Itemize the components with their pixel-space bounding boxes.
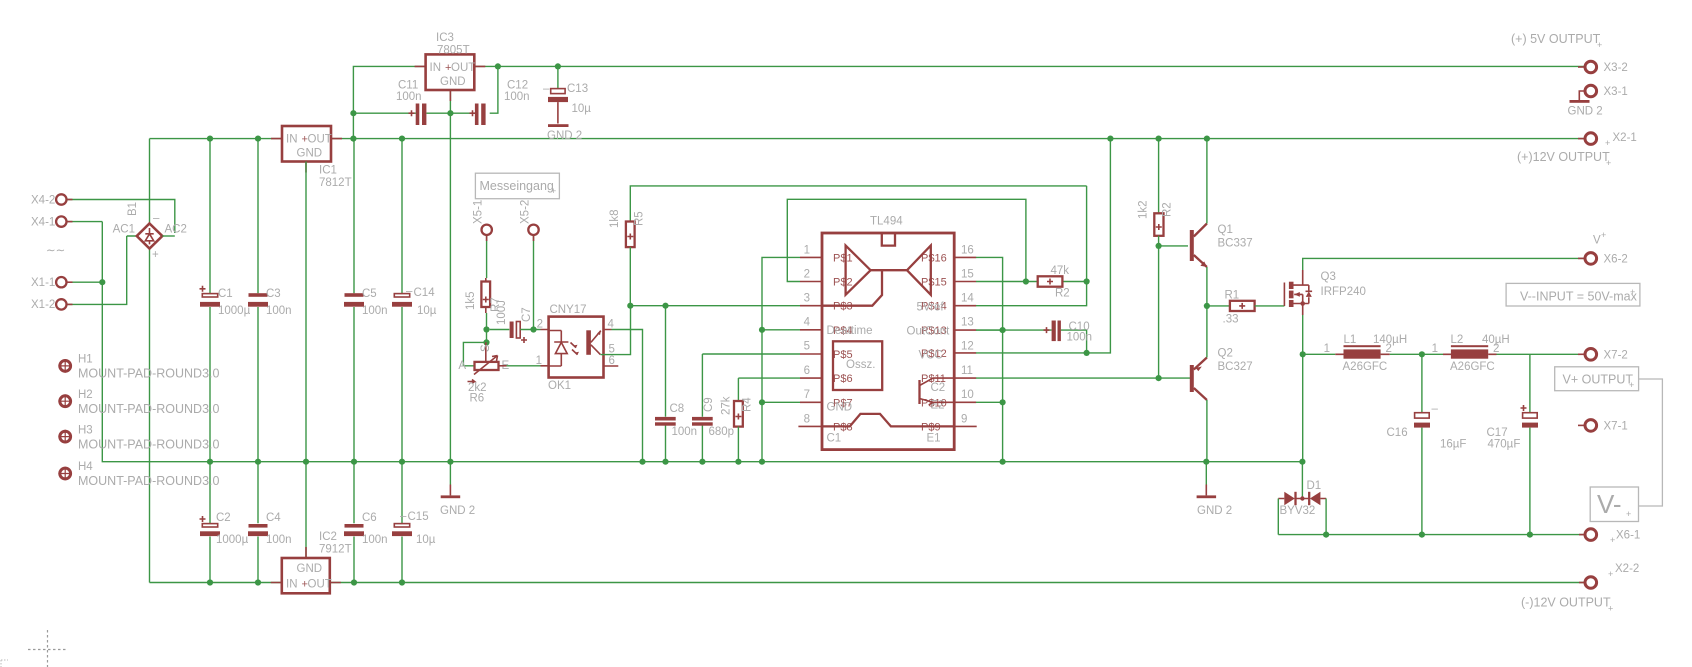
svg-text:IC3: IC3 xyxy=(436,32,454,44)
svg-text:IRFP240: IRFP240 xyxy=(1321,286,1366,298)
terminal X5-2 xyxy=(520,200,539,330)
svg-text:–: – xyxy=(543,83,550,95)
svg-text:GND 2: GND 2 xyxy=(547,130,582,142)
wire: +12V rail from bridge to X2-1 with junctions xyxy=(150,136,1586,142)
svg-text:+: + xyxy=(551,186,556,196)
gray connector V+OUTPUT box to V- box xyxy=(1639,379,1663,506)
svg-text:4: 4 xyxy=(804,317,811,329)
svg-text:1: 1 xyxy=(804,245,810,257)
svg-text:7805T: 7805T xyxy=(437,45,470,57)
diode D1 BYV32 dual xyxy=(1278,480,1326,535)
wire: bridge minus to rail / plus down to bottom rail xyxy=(149,139,151,583)
wire: ground bus y=462 with junctions xyxy=(99,222,1305,465)
svg-text:GND: GND xyxy=(827,402,853,414)
svg-text:C2: C2 xyxy=(931,382,946,394)
svg-text:1: 1 xyxy=(536,355,542,367)
svg-text:X4-1: X4-1 xyxy=(31,217,55,229)
wire: IC3 IN branch from rail xyxy=(353,66,425,138)
capacitor C17 470uF xyxy=(1487,354,1539,534)
svg-text:R4: R4 xyxy=(742,397,754,412)
svg-text:100n: 100n xyxy=(362,534,388,546)
svg-text:8: 8 xyxy=(804,414,810,426)
svg-text:X4-2: X4-2 xyxy=(31,195,55,207)
svg-text:+: + xyxy=(1610,535,1615,545)
mount pad H3 xyxy=(58,425,219,452)
svg-text:5: 5 xyxy=(804,341,810,353)
resistor R2 47k xyxy=(976,265,1090,300)
svg-text:40µH: 40µH xyxy=(1482,334,1510,346)
svg-text:V-: V- xyxy=(1597,489,1622,519)
svg-text:H4: H4 xyxy=(78,461,93,473)
svg-text:R2: R2 xyxy=(1055,288,1070,300)
wire: TL494 pin3 net xyxy=(627,303,800,309)
svg-text:15: 15 xyxy=(961,269,974,281)
svg-text:3: 3 xyxy=(804,293,810,305)
svg-text:V--INPUT = 50V-max: V--INPUT = 50V-max xyxy=(1520,290,1638,304)
svg-text:P$6: P$6 xyxy=(833,373,853,385)
svg-text:(-)12V OUTPUT: (-)12V OUTPUT xyxy=(1521,596,1611,610)
voltage regulator IC1 7812T xyxy=(271,126,352,189)
terminal X3-1 with ground xyxy=(1568,85,1628,117)
svg-text:Q1: Q1 xyxy=(1218,224,1233,236)
svg-text:16: 16 xyxy=(961,245,974,257)
svg-text:OUT: OUT xyxy=(308,134,332,146)
svg-text:C2: C2 xyxy=(216,512,231,524)
svg-text:C1: C1 xyxy=(218,288,233,300)
svg-text:A26GFC: A26GFC xyxy=(1343,361,1388,373)
svg-text:680p: 680p xyxy=(709,426,735,438)
origin crosshair xyxy=(1,630,67,667)
svg-text:X6-1: X6-1 xyxy=(1616,530,1640,542)
svg-text:IN: IN xyxy=(286,134,298,146)
svg-text:L1: L1 xyxy=(1344,334,1357,346)
svg-text:100n: 100n xyxy=(266,534,292,546)
svg-text:+: + xyxy=(1608,604,1613,614)
svg-text:MOUNT-PAD-ROUND3.0: MOUNT-PAD-ROUND3.0 xyxy=(78,474,219,488)
resistor R1 .33 xyxy=(1204,290,1285,326)
mount pad H2 xyxy=(58,389,219,416)
svg-text:11: 11 xyxy=(961,365,973,377)
svg-text:100n: 100n xyxy=(504,91,530,103)
svg-text:13: 13 xyxy=(961,317,974,329)
svg-text:C7: C7 xyxy=(521,307,533,322)
svg-text:1k8: 1k8 xyxy=(609,209,621,228)
svg-text:R5: R5 xyxy=(634,211,646,226)
terminal X7-1 xyxy=(1578,420,1628,433)
svg-text:47k: 47k xyxy=(1051,265,1070,277)
resistor R4 27k xyxy=(721,378,801,462)
svg-text:BYV32: BYV32 xyxy=(1280,505,1316,517)
svg-text:X7-1: X7-1 xyxy=(1604,421,1628,433)
svg-text:S: S xyxy=(480,344,492,352)
capacitor C10 100n xyxy=(976,321,1092,353)
wire: TL494 pin5 to C9 xyxy=(702,353,800,355)
svg-text:7912T: 7912T xyxy=(319,544,352,556)
svg-text:P$2: P$2 xyxy=(833,277,853,289)
terminal X4-2 xyxy=(31,194,175,233)
svg-text:10µ: 10µ xyxy=(572,103,592,115)
transistor Q1 BC337 xyxy=(1159,139,1253,306)
capacitor C12 100n xyxy=(470,80,530,126)
wire: C11/C12 line y=113.2 xyxy=(350,66,498,116)
svg-text:C1: C1 xyxy=(827,433,842,445)
mount pad H4 xyxy=(58,461,219,488)
label (+)12V OUTPUT xyxy=(1517,150,1611,168)
svg-text:IN: IN xyxy=(430,62,442,74)
svg-text:10µ: 10µ xyxy=(416,534,436,546)
TL494 internal output transistor pins 10/11 xyxy=(920,378,955,405)
voltage regulator IC3 7805T xyxy=(415,32,486,101)
svg-text:27k: 27k xyxy=(721,396,733,415)
svg-text:H2: H2 xyxy=(78,389,93,401)
svg-text:5Vref: 5Vref xyxy=(917,302,945,314)
capacitor C15 10u xyxy=(392,462,436,583)
svg-text:100n: 100n xyxy=(266,305,292,317)
svg-text:140µH: 140µH xyxy=(1373,334,1407,346)
annotation box V--INPUT = 50V-max xyxy=(1506,283,1640,306)
svg-text:L2: L2 xyxy=(1451,334,1464,346)
wire: IC1/IC2 GND vertical xyxy=(305,162,307,559)
svg-text:OUT: OUT xyxy=(451,62,475,74)
svg-text:100n: 100n xyxy=(672,426,698,438)
wire: pin2 to pin15 feedback loop xyxy=(787,199,1026,281)
svg-text:AC1: AC1 xyxy=(113,224,135,236)
transistor Q2 BC327 xyxy=(1190,306,1253,462)
svg-text:R1: R1 xyxy=(1225,290,1240,302)
ground symbol GND2 under C13 xyxy=(547,124,582,142)
svg-text:C8: C8 xyxy=(670,403,685,415)
terminal X6-1 xyxy=(1579,529,1640,545)
terminal X3-2 xyxy=(1578,61,1628,74)
svg-text:OUT: OUT xyxy=(308,579,332,591)
svg-text:H3: H3 xyxy=(78,425,93,437)
svg-text:14: 14 xyxy=(961,293,974,305)
svg-text:CNY17: CNY17 xyxy=(550,304,587,316)
svg-text:X2-2: X2-2 xyxy=(1615,563,1639,575)
svg-text:16µF: 16µF xyxy=(1440,439,1466,451)
svg-text:–: – xyxy=(406,286,413,298)
svg-text:AC2: AC2 xyxy=(165,224,187,236)
resistor R5 1k8 xyxy=(609,186,1087,306)
resistor R7 1k5 xyxy=(465,278,502,313)
wire: Q3 source down to inductor node, bus end, D1 xyxy=(1300,315,1306,497)
wire: pin16 and pin13 to ground vertical xyxy=(976,257,1006,461)
svg-text:IN: IN xyxy=(286,579,298,591)
svg-text:C5: C5 xyxy=(362,288,377,300)
svg-text:+: + xyxy=(152,249,159,261)
terminal X2-2 xyxy=(1579,563,1639,588)
capacitor C14 10u xyxy=(392,139,437,462)
wire: pin12 VCC to +12V rail xyxy=(976,139,1110,356)
wire: pin14 5Vref up to R2 node and top line xyxy=(976,186,1087,306)
svg-text:GND 2: GND 2 xyxy=(1568,106,1603,118)
svg-text:10: 10 xyxy=(961,389,974,401)
svg-text:100n: 100n xyxy=(396,91,422,103)
terminal X1-1 xyxy=(31,277,102,289)
svg-text:R2: R2 xyxy=(1162,202,1174,217)
svg-text:B1: B1 xyxy=(127,202,139,216)
svg-text:(+) 5V OUTPUT: (+) 5V OUTPUT xyxy=(1511,32,1601,46)
svg-text:D1: D1 xyxy=(1307,480,1322,492)
capacitor C4 100n xyxy=(248,462,292,583)
annotation box Messeingang xyxy=(475,173,559,199)
svg-text:5: 5 xyxy=(609,344,615,356)
svg-text:1k2: 1k2 xyxy=(1138,200,1150,219)
wire: -12V bottom rail to X2-2 with junctions xyxy=(150,579,1586,585)
svg-text:V: V xyxy=(1593,235,1601,247)
svg-text:C3: C3 xyxy=(266,288,281,300)
svg-text:4: 4 xyxy=(608,319,615,331)
svg-text:MOUNT-PAD-ROUND3.0: MOUNT-PAD-ROUND3.0 xyxy=(78,367,219,381)
TL494 internal comparator triangles xyxy=(822,246,931,306)
ground symbol GND2 near Q2 xyxy=(1197,462,1233,517)
svg-text:GND: GND xyxy=(297,148,323,160)
inductor L1 140uH xyxy=(1303,334,1451,373)
capacitor C1 1000u xyxy=(200,139,251,462)
svg-text:470µF: 470µF xyxy=(1488,439,1521,451)
svg-text:C13: C13 xyxy=(567,83,588,95)
capacitor C8 100n xyxy=(655,306,697,462)
TL494 internal labels xyxy=(827,302,951,445)
TL494 right pin stubs and numbers xyxy=(954,245,977,427)
svg-text:C17: C17 xyxy=(1487,427,1508,439)
trimmer R6 2k2 xyxy=(458,342,541,404)
MOSFET Q3 IRFP240 xyxy=(1284,270,1365,315)
svg-text:.33: .33 xyxy=(1223,314,1239,326)
wire: V- line to X6-1 xyxy=(1278,532,1585,538)
svg-text:100n: 100n xyxy=(1067,332,1093,344)
svg-text:C4: C4 xyxy=(266,512,281,524)
annotation box V- xyxy=(1590,487,1638,522)
wire: R7 bottom node with junctions xyxy=(463,313,509,366)
svg-text:TL494: TL494 xyxy=(870,216,903,228)
svg-text:–: – xyxy=(153,213,160,225)
svg-text:P$1: P$1 xyxy=(833,252,853,264)
svg-text:C14: C14 xyxy=(414,287,436,299)
svg-text:X1-1: X1-1 xyxy=(31,277,55,289)
terminal X6-2 xyxy=(1578,230,1628,266)
svg-text:GND 2: GND 2 xyxy=(440,505,475,517)
svg-text:C12: C12 xyxy=(507,80,528,92)
svg-text:V+ OUTPUT: V+ OUTPUT xyxy=(1563,373,1634,387)
svg-text:+: + xyxy=(1597,40,1602,50)
optocoupler OK1 CNY17 xyxy=(536,304,619,392)
capacitor C6 100n xyxy=(344,462,388,583)
terminal X7-2 xyxy=(1578,349,1628,362)
capacitor C3 100n xyxy=(248,139,292,462)
inductor L2 40uH xyxy=(1432,334,1585,373)
terminal X4-1 xyxy=(31,216,102,228)
svg-text:OK1: OK1 xyxy=(548,380,571,392)
wire: Q3 drain to X6-2 xyxy=(1303,258,1585,270)
resistor R8 1k2 pull-up xyxy=(1138,139,1174,379)
svg-text:1: 1 xyxy=(1432,343,1438,355)
capacitor C5 100n xyxy=(344,139,388,462)
svg-text:E1: E1 xyxy=(927,433,941,445)
svg-text:6: 6 xyxy=(804,365,810,377)
terminal X5-1 xyxy=(473,200,492,278)
TL494 internal pin names P$1-P$16 xyxy=(833,252,947,433)
svg-text:+: + xyxy=(1629,380,1634,390)
wire: CNY17 pin5 to R5/pin3 node xyxy=(601,306,631,355)
svg-text:R6: R6 xyxy=(470,393,485,405)
svg-text:2: 2 xyxy=(537,319,543,331)
TL494 left pin stubs and numbers xyxy=(798,245,822,427)
svg-text:P$16: P$16 xyxy=(921,252,947,264)
svg-text:GND: GND xyxy=(297,563,323,575)
capacitor C13 10u xyxy=(543,66,591,123)
svg-text:∼∼: ∼∼ xyxy=(46,245,65,257)
wire: CNY17 pin4 to ground bus xyxy=(612,330,643,462)
svg-text:C9: C9 xyxy=(703,397,715,412)
svg-text:+: + xyxy=(1606,158,1611,168)
svg-text:X5-1: X5-1 xyxy=(473,200,485,224)
IC TL494 body xyxy=(822,216,954,450)
svg-text:MOUNT-PAD-ROUND3.0: MOUNT-PAD-ROUND3.0 xyxy=(78,402,219,416)
svg-text:E2: E2 xyxy=(931,400,945,412)
wire: IC3 GND vertical down to ground bus xyxy=(449,90,451,462)
svg-text:C6: C6 xyxy=(362,512,377,524)
svg-text:1000µ: 1000µ xyxy=(216,534,249,546)
svg-text:A: A xyxy=(458,360,466,372)
mount pad H1 xyxy=(58,354,219,381)
svg-text:X5-2: X5-2 xyxy=(520,200,532,224)
svg-text:GND: GND xyxy=(440,76,466,88)
wire: TL494 pins 1,4,7 ground vertical xyxy=(759,257,800,461)
svg-text:+: + xyxy=(1608,569,1613,579)
capacitor C11 100n xyxy=(396,80,426,126)
svg-text:100J: 100J xyxy=(496,300,508,325)
voltage regulator IC2 7912T xyxy=(271,531,352,593)
svg-text:GND 2: GND 2 xyxy=(1197,505,1232,517)
capacitor C7 xyxy=(496,300,541,343)
wire: pin11 E2 to driver bases xyxy=(976,375,1192,381)
svg-text:+: + xyxy=(1601,230,1606,240)
svg-text:X3-1: X3-1 xyxy=(1604,86,1628,98)
svg-text:100n: 100n xyxy=(362,305,388,317)
svg-text:X2-1: X2-1 xyxy=(1613,132,1637,144)
svg-text:H1: H1 xyxy=(78,354,93,366)
annotation box V+OUTPUT xyxy=(1555,367,1639,391)
svg-text:+: + xyxy=(1605,138,1610,148)
label (+) 5V OUTPUT xyxy=(1511,32,1602,50)
svg-text:X7-2: X7-2 xyxy=(1604,350,1628,362)
svg-text:IC1: IC1 xyxy=(319,165,337,177)
svg-text:BC327: BC327 xyxy=(1218,361,1253,373)
svg-text:MOUNT-PAD-ROUND3.0: MOUNT-PAD-ROUND3.0 xyxy=(78,438,219,452)
svg-text:P$15: P$15 xyxy=(921,277,947,289)
svg-text:1000µ: 1000µ xyxy=(218,305,251,317)
svg-text:C11: C11 xyxy=(398,80,418,92)
svg-text:Q2: Q2 xyxy=(1218,348,1233,360)
svg-text:1: 1 xyxy=(1324,343,1330,355)
svg-text:IC2: IC2 xyxy=(319,531,337,543)
capacitor C9 680p xyxy=(692,354,734,462)
terminal X1-2 xyxy=(31,236,137,311)
label (-)12V OUTPUT xyxy=(1521,596,1613,614)
svg-text:10µ: 10µ xyxy=(417,305,437,317)
svg-text:X1-2: X1-2 xyxy=(31,299,55,311)
svg-text:Q3: Q3 xyxy=(1321,271,1336,283)
TL494 internal output transistor pins 8/9 xyxy=(822,414,954,427)
svg-text:Messeingang: Messeingang xyxy=(480,179,554,193)
svg-text:OutCont: OutCont xyxy=(907,326,951,338)
capacitor C16 16uF xyxy=(1387,354,1467,534)
svg-text:VCC: VCC xyxy=(919,350,943,362)
ground symbol GND2 on main bus xyxy=(440,462,475,517)
svg-text:A26GFC: A26GFC xyxy=(1450,361,1495,373)
bridge rectifier B1 xyxy=(113,202,187,261)
svg-text:X3-2: X3-2 xyxy=(1604,62,1628,74)
svg-text:+: + xyxy=(1630,287,1635,297)
TL494 internal oscillator box Ossz. xyxy=(833,341,882,390)
svg-text:BC337: BC337 xyxy=(1218,238,1253,250)
svg-text:1k5: 1k5 xyxy=(465,291,477,310)
svg-text:–: – xyxy=(1432,403,1439,415)
svg-text:C16: C16 xyxy=(1387,427,1408,439)
svg-text:+: + xyxy=(1626,509,1631,519)
svg-text:Deattime: Deattime xyxy=(827,325,873,337)
svg-text:12: 12 xyxy=(961,341,974,353)
svg-text:2: 2 xyxy=(804,269,810,281)
svg-text:Ossz.: Ossz. xyxy=(846,359,875,371)
capacitor C2 1000u xyxy=(200,462,249,583)
svg-text:C15: C15 xyxy=(408,511,429,523)
svg-text:(+)12V OUTPUT: (+)12V OUTPUT xyxy=(1517,150,1610,164)
terminal X2-1 xyxy=(1578,132,1637,148)
svg-text:7: 7 xyxy=(804,389,810,401)
svg-text:9: 9 xyxy=(961,414,967,426)
svg-text:–: – xyxy=(400,511,407,523)
svg-text:X6-2: X6-2 xyxy=(1604,254,1628,266)
svg-text:6: 6 xyxy=(609,355,615,367)
svg-text:7812T: 7812T xyxy=(319,177,352,189)
wire: 5V line from IC3 OUT to X3-2 xyxy=(474,63,1585,69)
